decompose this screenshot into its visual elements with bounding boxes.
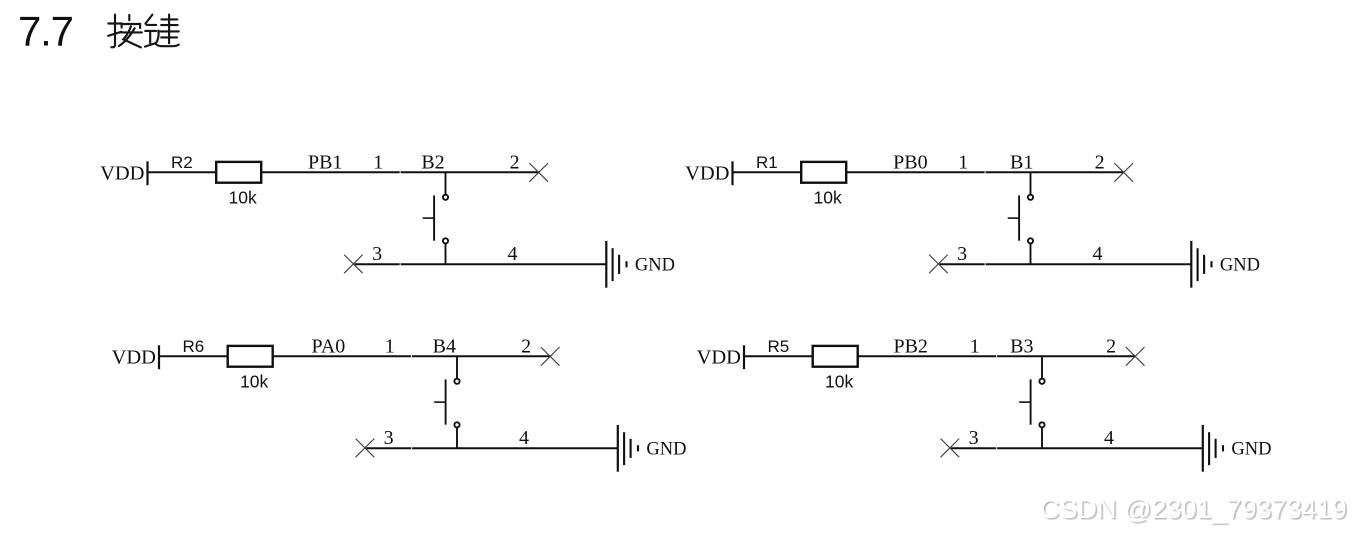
power flag VDD (circuit 4) [697,345,744,369]
wire B3 pin 4 to GND (circuit 4) [997,447,1203,449]
wire B1 pin 1 segment to pin 2 no-connect (circuit 2) [986,171,1124,173]
resistor R1 (circuit 2) [801,162,846,183]
svg-text:2: 2 [510,151,520,173]
svg-text:R6: R6 [183,337,205,356]
push-button switch B3 (circuit 4) [1019,356,1044,448]
heading character 键 [145,15,179,47]
push-button switch B1 (circuit 2) [1008,172,1033,264]
svg-text:2: 2 [1095,151,1105,173]
push-button switch B2 (circuit 1) [423,172,448,264]
wire VDD to R1 pin 1 (circuit 2) [734,171,802,173]
no-connect cross on pin 3 (circuit 2) [929,255,948,274]
svg-text:B1: B1 [1010,151,1033,173]
svg-text:1: 1 [970,335,980,357]
svg-text:GND: GND [635,256,675,276]
svg-text:10k: 10k [240,372,268,392]
svg-text:10k: 10k [813,188,841,208]
wire B2 pin 1 segment to pin 2 no-connect (circuit 1) [401,171,539,173]
ground symbol (circuit 3) [618,425,638,472]
wire R1 pin 2 to B1 pin 1 (net PB0, circuit 2) [846,171,984,173]
svg-text:4: 4 [1104,427,1114,449]
no-connect cross on pin 3 (circuit 3) [356,439,375,458]
svg-text:GND: GND [1231,440,1271,460]
resistor R5 (circuit 4) [813,346,858,367]
svg-text:1: 1 [385,335,395,357]
power flag VDD (circuit 1) [100,161,147,185]
power flag VDD (circuit 3) [112,345,159,369]
svg-text:R5: R5 [768,337,790,356]
no-connect cross on pin 2 (circuit 2) [1114,163,1133,182]
heading character 按 [108,15,142,48]
svg-text:3: 3 [372,243,382,265]
svg-text:VDD: VDD [112,346,156,368]
wire B2 pin 4 to GND (circuit 1) [401,263,607,265]
svg-text:R2: R2 [171,153,193,172]
svg-text:GND: GND [1220,256,1260,276]
svg-text:VDD: VDD [697,346,741,368]
resistor R2 (circuit 1) [216,162,261,183]
svg-text:PB0: PB0 [893,151,927,173]
svg-text:7.7: 7.7 [18,8,73,55]
wire B3 pin 1 segment to pin 2 no-connect (circuit 4) [997,355,1135,357]
ground symbol (circuit 1) [606,241,626,288]
wire pin 3 no-connect to B2 pin 3 (circuit 1) [355,263,400,265]
svg-text:2: 2 [1106,335,1116,357]
push-button switch B4 (circuit 3) [434,356,459,448]
svg-text:PB2: PB2 [893,335,927,357]
wire VDD to R2 pin 1 (circuit 1) [149,171,217,173]
svg-text:VDD: VDD [685,162,729,184]
svg-text:PB1: PB1 [308,151,342,173]
svg-text:B3: B3 [1010,335,1033,357]
svg-text:10k: 10k [825,372,853,392]
wire R2 pin 2 to B2 pin 1 (net PB1, circuit 1) [261,171,399,173]
watermark CSDN [1040,494,1347,525]
resistor R6 (circuit 3) [228,346,273,367]
svg-text:R1: R1 [756,153,778,172]
svg-text:2: 2 [521,335,531,357]
svg-text:4: 4 [519,427,529,449]
no-connect cross on pin 3 (circuit 4) [941,439,960,458]
svg-text:1: 1 [373,151,383,173]
power flag VDD (circuit 2) [685,161,732,185]
wire pin 3 no-connect to B3 pin 3 (circuit 4) [951,447,996,449]
ground symbol (circuit 2) [1191,241,1211,288]
svg-text:PA0: PA0 [312,335,346,357]
svg-text:10k: 10k [228,188,256,208]
svg-text:VDD: VDD [100,162,144,184]
svg-text:B4: B4 [433,335,456,357]
no-connect cross on pin 2 (circuit 3) [541,347,560,366]
wire B1 pin 4 to GND (circuit 2) [986,263,1192,265]
ground symbol (circuit 4) [1203,425,1223,472]
wire pin 3 no-connect to B1 pin 3 (circuit 2) [940,263,985,265]
wire VDD to R5 pin 1 (circuit 4) [745,355,813,357]
svg-text:GND: GND [646,440,686,460]
svg-text:B2: B2 [421,151,444,173]
no-connect cross on pin 3 (circuit 1) [344,255,363,274]
wire B4 pin 4 to GND (circuit 3) [412,447,618,449]
wire pin 3 no-connect to B4 pin 3 (circuit 3) [366,447,411,449]
no-connect cross on pin 2 (circuit 4) [1126,347,1145,366]
svg-text:4: 4 [1093,243,1103,265]
wire R5 pin 2 to B3 pin 1 (net PB2, circuit 4) [858,355,996,357]
no-connect cross on pin 2 (circuit 1) [529,163,548,182]
svg-text:3: 3 [969,427,979,449]
svg-text:3: 3 [957,243,967,265]
svg-text:4: 4 [508,243,518,265]
wire VDD to R6 pin 1 (circuit 3) [160,355,228,357]
wire R6 pin 2 to B4 pin 1 (net PA0, circuit 3) [273,355,411,357]
svg-text:3: 3 [384,427,394,449]
wire B4 pin 1 segment to pin 2 no-connect (circuit 3) [412,355,550,357]
svg-text:1: 1 [958,151,968,173]
